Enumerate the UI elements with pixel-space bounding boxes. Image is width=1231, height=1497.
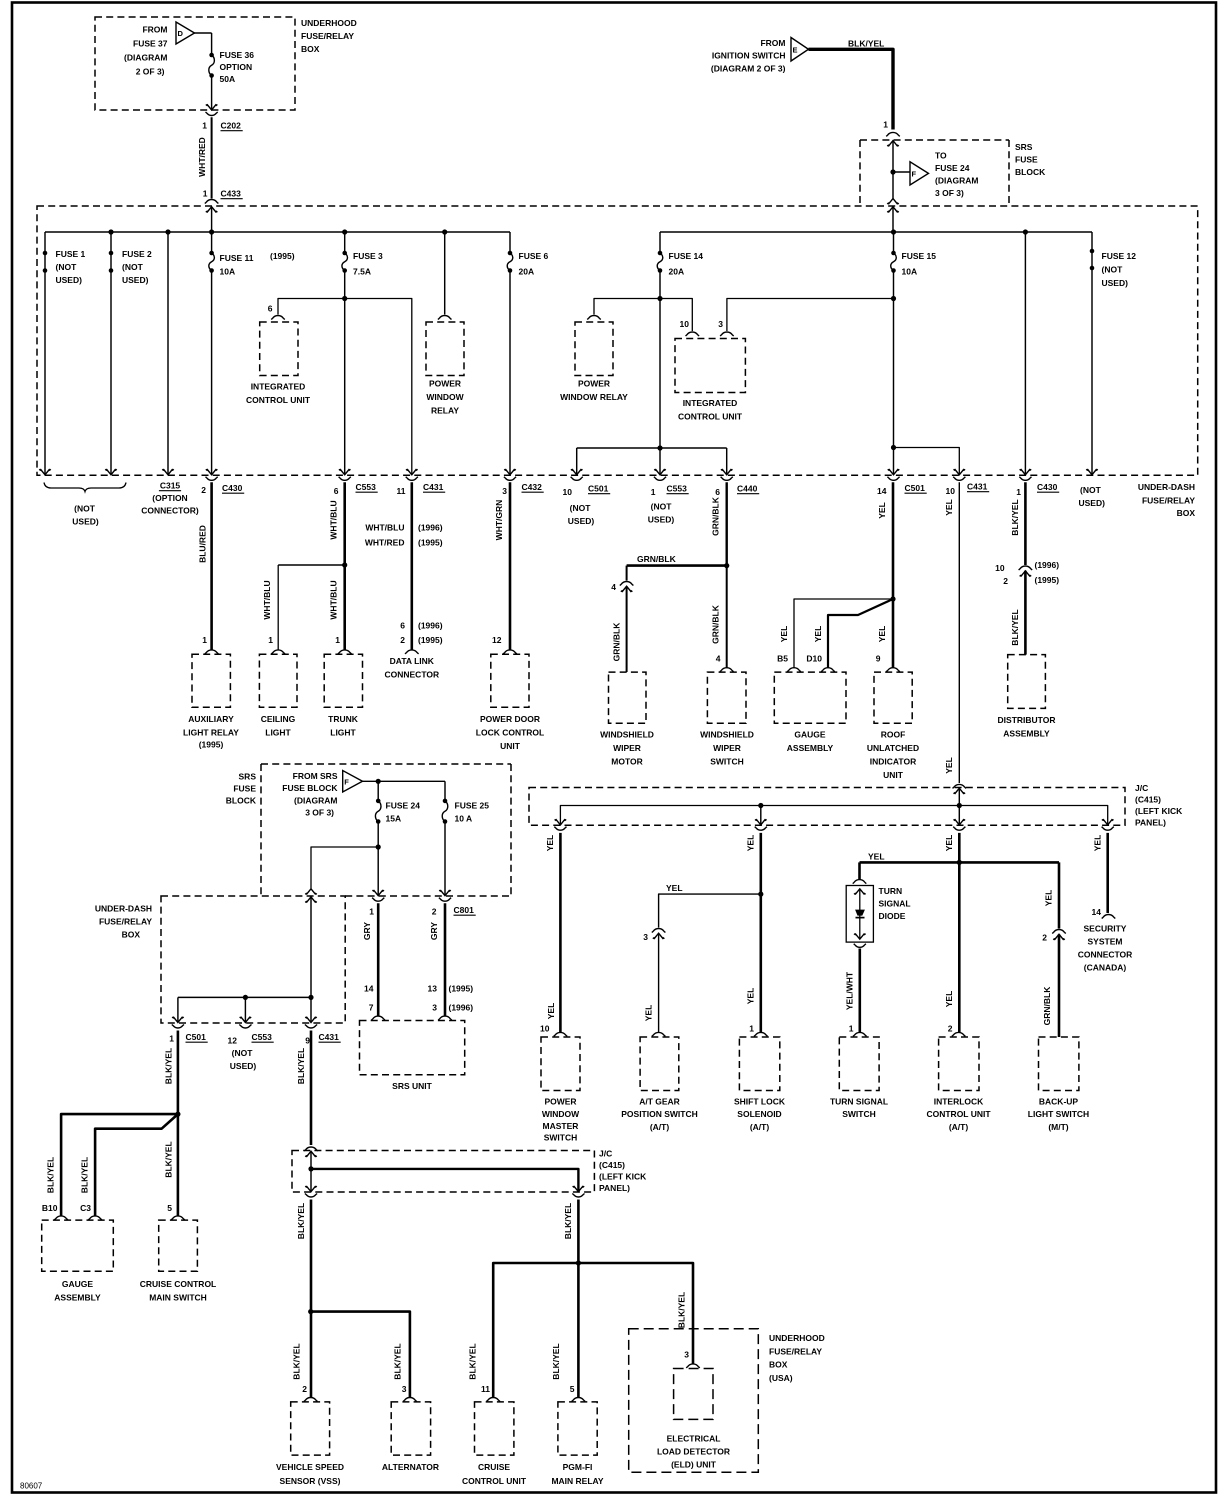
wire YEL C431-10 down to J/C bbox=[958, 482, 960, 783]
svg-text:YEL: YEL bbox=[868, 852, 885, 862]
SRS fuse block box (top, dashed) bbox=[859, 140, 861, 206]
connector C501 exit arc bbox=[887, 477, 899, 481]
svg-text:(1995): (1995) bbox=[449, 984, 474, 994]
junction dot fuse15 to C431 link bbox=[891, 445, 896, 450]
shift lock pin cap bbox=[754, 1032, 768, 1036]
connector C553 exit arc bbox=[339, 477, 351, 480]
svg-text:WIPER: WIPER bbox=[713, 743, 741, 753]
branch BLK/YEL to gauge B10 bbox=[61, 1114, 178, 1216]
branch wire to data link connector C431-11 bbox=[345, 299, 412, 475]
junction dot SRS branch bbox=[376, 844, 381, 849]
svg-text:3 OF 3): 3 OF 3) bbox=[935, 188, 964, 198]
connector exit arc J/C2 left bbox=[305, 1194, 317, 1198]
pin 6 cap (integrated control unit) bbox=[271, 315, 285, 319]
bus A in under-dash box bbox=[45, 231, 510, 233]
svg-text:20A: 20A bbox=[519, 267, 535, 277]
svg-text:SYSTEM: SYSTEM bbox=[1088, 937, 1123, 947]
svg-text:(NOT: (NOT bbox=[122, 262, 144, 272]
svg-text:1: 1 bbox=[749, 1024, 754, 1034]
svg-text:B10: B10 bbox=[42, 1203, 58, 1213]
arrow exit C501-10 bbox=[571, 469, 583, 475]
svg-text:GAUGE: GAUGE bbox=[794, 730, 826, 740]
svg-text:(DIAGRAM 2 OF 3): (DIAGRAM 2 OF 3) bbox=[711, 64, 786, 74]
branch YEL to A/T gear position switch bbox=[659, 894, 761, 927]
svg-text:FUSE 6: FUSE 6 bbox=[519, 251, 549, 261]
svg-text:BLOCK: BLOCK bbox=[1015, 167, 1046, 177]
connector C440 exit arc bbox=[721, 477, 733, 481]
electrical load detector box bbox=[674, 1369, 713, 1420]
drop to C553-12 (not used) bbox=[244, 997, 246, 1022]
svg-text:FUSE 24: FUSE 24 bbox=[935, 163, 970, 173]
svg-text:BACK-UP: BACK-UP bbox=[1039, 1097, 1079, 1107]
svg-text:1: 1 bbox=[849, 1024, 854, 1034]
svg-text:(NOT: (NOT bbox=[56, 262, 78, 272]
svg-text:E: E bbox=[793, 45, 798, 54]
diode symbol bbox=[855, 910, 865, 916]
junction dot C553-12 bbox=[243, 995, 248, 1000]
svg-text:DISTRIBUTOR: DISTRIBUTOR bbox=[998, 715, 1056, 725]
svg-text:(NOT: (NOT bbox=[1080, 485, 1102, 495]
svg-text:LIGHT: LIGHT bbox=[330, 728, 356, 738]
wire J/C1 shift drop inside bbox=[760, 806, 762, 825]
connector exit arcs J/C 1 bbox=[554, 827, 566, 831]
branch GRN/BLK to wiper motor bbox=[627, 564, 727, 567]
distributor assembly box bbox=[1008, 655, 1046, 709]
svg-text:10: 10 bbox=[540, 1024, 550, 1034]
junction dot to F connector bbox=[890, 169, 895, 174]
bus B in under-dash box bbox=[660, 231, 1092, 233]
svg-text:11: 11 bbox=[481, 1384, 490, 1394]
svg-text:TURN: TURN bbox=[879, 886, 903, 896]
power window relay 1 pin cap bbox=[438, 315, 452, 319]
svg-text:10: 10 bbox=[946, 486, 956, 496]
svg-text:10 A: 10 A bbox=[455, 814, 473, 824]
svg-text:(OPTION: (OPTION bbox=[152, 493, 187, 503]
svg-text:FUSE/RELAY: FUSE/RELAY bbox=[769, 1347, 822, 1357]
junction dot fuse3 branch bbox=[342, 296, 347, 301]
svg-text:(1995): (1995) bbox=[418, 538, 443, 548]
svg-text:BLU/RED: BLU/RED bbox=[197, 525, 207, 563]
svg-text:(1996): (1996) bbox=[449, 1003, 474, 1013]
svg-text:J/C: J/C bbox=[599, 1149, 612, 1159]
arrow exits J/C 1 bbox=[555, 819, 567, 825]
svg-text:UNDER-DASH: UNDER-DASH bbox=[1138, 482, 1195, 492]
svg-text:2: 2 bbox=[302, 1384, 307, 1394]
svg-text:14: 14 bbox=[1092, 907, 1102, 917]
svg-text:GRN/BLK: GRN/BLK bbox=[1042, 986, 1052, 1026]
svg-text:4: 4 bbox=[716, 654, 721, 664]
svg-text:USED): USED) bbox=[122, 275, 149, 285]
arrow pair through SRS bottom into under-dash box 2 bbox=[305, 889, 317, 895]
arrow out of underhood box bbox=[206, 104, 218, 110]
back-up light switch box bbox=[1039, 1037, 1079, 1091]
svg-text:TURN SIGNAL: TURN SIGNAL bbox=[830, 1097, 888, 1107]
arrow exit J/C2 right bbox=[573, 1186, 585, 1192]
wire inside J/C 2 bbox=[310, 1151, 312, 1169]
svg-text:OPTION: OPTION bbox=[220, 62, 253, 72]
svg-text:YEL: YEL bbox=[746, 835, 756, 852]
connector 3 cap bbox=[652, 928, 666, 932]
connector C553 exit arc (not used) bbox=[654, 477, 666, 481]
svg-text:(1995): (1995) bbox=[270, 251, 295, 261]
svg-text:INTEGRATED: INTEGRATED bbox=[251, 382, 306, 392]
fuse 11 10A bbox=[209, 251, 214, 256]
underhood fuse/relay box (top left, dashed) bbox=[95, 17, 295, 110]
svg-text:2 OF 3): 2 OF 3) bbox=[136, 67, 165, 77]
svg-text:BLK/YEL: BLK/YEL bbox=[1010, 609, 1020, 645]
junction dots J/C 1 bbox=[758, 803, 763, 808]
junction dot fuse15/ICU pin3 bbox=[891, 296, 896, 301]
svg-text:GRN/BLK: GRN/BLK bbox=[711, 496, 721, 536]
wiper switch pin cap bbox=[720, 668, 734, 672]
svg-text:GRN/BLK: GRN/BLK bbox=[611, 622, 621, 662]
wire to triangle F bbox=[893, 171, 910, 173]
svg-text:1: 1 bbox=[651, 487, 656, 497]
connector C430 exit arc bbox=[206, 477, 218, 481]
arrow exit C553-12 bbox=[240, 1017, 252, 1023]
svg-text:SECURITY: SECURITY bbox=[1084, 924, 1127, 934]
svg-text:(NOT: (NOT bbox=[74, 504, 96, 514]
junction dot gauge branch bbox=[175, 1112, 180, 1117]
wire to power window relay 1 bbox=[444, 232, 446, 315]
junction dot alternator branch bbox=[308, 1309, 313, 1314]
ceiling light box bbox=[259, 654, 297, 707]
svg-text:PANEL): PANEL) bbox=[599, 1183, 630, 1193]
svg-text:SOLENOID: SOLENOID bbox=[737, 1109, 781, 1119]
svg-text:3 OF 3): 3 OF 3) bbox=[305, 808, 334, 818]
svg-text:POWER: POWER bbox=[578, 379, 610, 389]
srs unit pin 13/3 cap bbox=[438, 1016, 452, 1020]
svg-text:FUSE 37: FUSE 37 bbox=[133, 39, 168, 49]
svg-text:WIPER: WIPER bbox=[613, 743, 641, 753]
alternator pin cap bbox=[403, 1397, 417, 1401]
fuse 6 20A bbox=[508, 251, 513, 256]
drop to C440-6 bbox=[726, 448, 728, 475]
svg-text:2: 2 bbox=[1042, 933, 1047, 943]
svg-text:DATA LINK: DATA LINK bbox=[390, 656, 435, 666]
svg-text:(C415): (C415) bbox=[1135, 795, 1161, 805]
svg-text:(1995): (1995) bbox=[418, 635, 443, 645]
svg-text:BLK/YEL: BLK/YEL bbox=[551, 1343, 561, 1379]
svg-text:YEL: YEL bbox=[746, 988, 756, 1005]
wire C433 entry to bus bbox=[211, 207, 213, 232]
svg-text:BLK/YEL: BLK/YEL bbox=[163, 1048, 173, 1084]
svg-text:YEL: YEL bbox=[643, 1005, 653, 1022]
arrow into under-dash box at C433 bbox=[206, 207, 218, 213]
svg-text:F: F bbox=[344, 777, 349, 786]
svg-text:YEL: YEL bbox=[779, 626, 789, 643]
connector 2 cap bbox=[1052, 929, 1066, 933]
diode internal up arrow bbox=[854, 889, 866, 895]
fuse 24 wire upper bbox=[377, 781, 379, 801]
cruise control main switch box bbox=[159, 1220, 198, 1271]
svg-text:ASSEMBLY: ASSEMBLY bbox=[787, 743, 834, 753]
arrow exit C501-14 bbox=[888, 469, 900, 475]
svg-text:(ELD) UNIT: (ELD) UNIT bbox=[671, 1460, 717, 1470]
svg-text:FUSE 24: FUSE 24 bbox=[386, 801, 421, 811]
svg-text:ASSEMBLY: ASSEMBLY bbox=[54, 1293, 101, 1303]
branch BLK/YEL to cruise control unit bbox=[493, 1263, 578, 1398]
svg-text:WHT/RED: WHT/RED bbox=[197, 137, 207, 177]
svg-text:SWITCH: SWITCH bbox=[842, 1109, 876, 1119]
connector C433 cap bbox=[205, 199, 219, 203]
wire BLK/YEL to VSS bbox=[310, 1200, 313, 1398]
wire BLK/YEL to distributor lower bbox=[1024, 571, 1027, 655]
svg-text:UNDER-DASH: UNDER-DASH bbox=[95, 904, 152, 914]
pgm-fi main relay box bbox=[558, 1402, 597, 1455]
svg-text:IGNITION SWITCH: IGNITION SWITCH bbox=[712, 51, 786, 61]
svg-text:10A: 10A bbox=[220, 267, 236, 277]
turn signal switch box bbox=[839, 1037, 879, 1091]
fuse 1 (not used) wire bbox=[44, 232, 46, 475]
svg-text:BOX: BOX bbox=[122, 930, 141, 940]
svg-text:CONTROL UNIT: CONTROL UNIT bbox=[678, 412, 743, 422]
power window relay 2 wire bbox=[594, 299, 660, 315]
svg-text:YEL: YEL bbox=[666, 883, 683, 893]
connector C430 exit arc bbox=[1019, 477, 1031, 481]
svg-text:CONNECTOR: CONNECTOR bbox=[384, 670, 439, 680]
svg-text:1: 1 bbox=[169, 1034, 174, 1044]
svg-text:YEL: YEL bbox=[1093, 835, 1103, 852]
svg-text:2: 2 bbox=[432, 907, 437, 917]
svg-text:BLK/YEL: BLK/YEL bbox=[45, 1157, 55, 1193]
fuse 25 10A bbox=[443, 799, 448, 804]
svg-text:J/C: J/C bbox=[1135, 783, 1148, 793]
svg-text:SIGNAL: SIGNAL bbox=[879, 899, 911, 909]
svg-text:FUSE/RELAY: FUSE/RELAY bbox=[99, 917, 152, 927]
svg-text:USED): USED) bbox=[568, 516, 595, 526]
arrow exit C432-3 bbox=[504, 469, 516, 475]
svg-text:FROM SRS: FROM SRS bbox=[293, 771, 338, 781]
fuse 25 wire lower bbox=[444, 822, 446, 895]
wire ICU-2 pin 3 to fuse 15 bbox=[727, 299, 894, 332]
svg-text:BLK/YEL: BLK/YEL bbox=[79, 1157, 89, 1193]
svg-text:C202: C202 bbox=[221, 121, 242, 131]
svg-text:(DIAGRAM: (DIAGRAM bbox=[935, 176, 978, 186]
wire to A/T gear position switch bbox=[658, 933, 660, 1032]
svg-text:USED): USED) bbox=[1102, 278, 1129, 288]
connector C432 exit arc bbox=[504, 477, 516, 481]
brace under fuse1/fuse2 wires bbox=[44, 483, 126, 492]
connector C431-9 exit arc bbox=[305, 1025, 317, 1029]
arrow exit J/C2 left bbox=[305, 1186, 317, 1192]
svg-text:(1996): (1996) bbox=[418, 523, 443, 533]
security connector cap bbox=[1102, 914, 1116, 918]
connector C553-12 exit arc bbox=[239, 1025, 251, 1029]
diode internal wire bbox=[859, 889, 861, 939]
svg-text:WINDOW RELAY: WINDOW RELAY bbox=[560, 392, 628, 402]
arrow into SRS fuse block bbox=[887, 141, 899, 147]
svg-text:UNDERHOOD: UNDERHOOD bbox=[769, 1333, 825, 1343]
svg-text:WHT/BLU: WHT/BLU bbox=[329, 580, 339, 619]
power window relay 1 box bbox=[426, 322, 464, 376]
wire GRN/BLK to wiper switch bbox=[726, 566, 728, 668]
A/T gear position switch box bbox=[640, 1037, 679, 1091]
svg-text:INTERLOCK: INTERLOCK bbox=[934, 1097, 984, 1107]
svg-text:(1995): (1995) bbox=[199, 740, 224, 750]
roof unlatched indicator unit box bbox=[874, 672, 912, 723]
svg-text:YEL: YEL bbox=[944, 499, 954, 516]
interlock pin cap bbox=[952, 1032, 966, 1036]
svg-text:SHIFT LOCK: SHIFT LOCK bbox=[734, 1097, 786, 1107]
svg-text:YEL: YEL bbox=[813, 626, 823, 643]
connector C801-1 exit arc bbox=[372, 898, 384, 902]
PWMS pin cap bbox=[554, 1032, 568, 1036]
wire YEL shift lock solenoid bbox=[759, 833, 762, 1033]
svg-text:C553: C553 bbox=[252, 1032, 273, 1042]
svg-text:13: 13 bbox=[428, 984, 438, 994]
wire to C430-1 bbox=[1024, 232, 1026, 475]
connector 3 lower chevron bbox=[653, 933, 665, 939]
connector 2 lower chevron bbox=[1053, 934, 1065, 940]
wire YEL to interlock control unit bbox=[958, 833, 961, 1033]
arrow fuse12 exit bbox=[1086, 469, 1098, 475]
junction dot fuse14 to relay/ICU bbox=[657, 296, 662, 301]
arrow into J/C 2 bbox=[305, 1151, 317, 1157]
wire GRY srs unit pin 13/3 bbox=[444, 903, 447, 1016]
svg-text:GRN/BLK: GRN/BLK bbox=[637, 554, 677, 564]
fuse 12 (not used) wire bbox=[1091, 232, 1093, 475]
svg-text:11: 11 bbox=[397, 486, 406, 496]
svg-text:FUSE 2: FUSE 2 bbox=[122, 249, 152, 259]
shift lock solenoid box bbox=[739, 1037, 779, 1091]
pgm-fi pin cap bbox=[572, 1397, 586, 1401]
wire YEL to security system connector bbox=[1106, 833, 1109, 913]
gauge pin D10 cap bbox=[821, 668, 835, 672]
branch BLK/YEL to alternator bbox=[311, 1312, 410, 1398]
wire from triangle D to fuse 36 bbox=[195, 32, 212, 34]
fuse 14 wire bbox=[659, 232, 661, 253]
power window relay 2 pin cap bbox=[587, 315, 601, 319]
trunk light box bbox=[324, 654, 362, 707]
svg-text:B5: B5 bbox=[777, 654, 788, 664]
svg-text:FROM: FROM bbox=[142, 25, 167, 35]
connector cap at J/C 1 entry bbox=[953, 784, 967, 788]
svg-text:CONTROL UNIT: CONTROL UNIT bbox=[246, 395, 311, 405]
arrow fuse1 wire exit bbox=[39, 469, 51, 475]
svg-text:FUSE 25: FUSE 25 bbox=[455, 801, 490, 811]
svg-text:(NOT: (NOT bbox=[570, 503, 592, 513]
svg-text:WINDSHIELD: WINDSHIELD bbox=[600, 730, 654, 740]
svg-text:YEL: YEL bbox=[1043, 890, 1053, 907]
fuse 6 wire bbox=[509, 232, 511, 253]
svg-text:C501: C501 bbox=[588, 484, 609, 494]
svg-text:F: F bbox=[912, 170, 917, 179]
svg-text:LIGHT SWITCH: LIGHT SWITCH bbox=[1028, 1109, 1089, 1119]
svg-text:WHT/BLU: WHT/BLU bbox=[365, 523, 404, 533]
svg-text:FUSE 3: FUSE 3 bbox=[353, 251, 383, 261]
under-dash fuse/relay box 2 (dashed) bbox=[161, 896, 345, 1023]
svg-text:C433: C433 bbox=[221, 189, 242, 199]
svg-text:BLK/YEL: BLK/YEL bbox=[1010, 499, 1020, 535]
svg-text:80607: 80607 bbox=[20, 1482, 43, 1491]
svg-text:WINDOW: WINDOW bbox=[542, 1109, 580, 1119]
svg-text:5: 5 bbox=[570, 1384, 575, 1394]
svg-text:UNDERHOOD: UNDERHOOD bbox=[301, 18, 357, 28]
svg-text:10: 10 bbox=[563, 487, 573, 497]
svg-text:2: 2 bbox=[400, 635, 405, 645]
connector 4 lower chevron bbox=[621, 586, 633, 592]
svg-text:CRUISE CONTROL: CRUISE CONTROL bbox=[140, 1279, 217, 1289]
svg-text:(NOT: (NOT bbox=[651, 502, 673, 512]
turn signal switch pin cap bbox=[853, 1032, 867, 1036]
arrow fuse2 wire exit bbox=[105, 469, 117, 475]
svg-text:9: 9 bbox=[876, 654, 881, 664]
gauge assembly box (lower) bbox=[42, 1220, 114, 1271]
svg-text:YEL/WHT: YEL/WHT bbox=[845, 971, 855, 1010]
svg-text:(M/T): (M/T) bbox=[1048, 1122, 1068, 1132]
arrow exit to C430-2 bbox=[206, 469, 218, 475]
svg-text:CONNECTOR: CONNECTOR bbox=[1078, 950, 1133, 960]
power door lock pin cap bbox=[503, 650, 517, 654]
svg-text:SRS: SRS bbox=[239, 772, 257, 782]
svg-text:USED): USED) bbox=[72, 517, 99, 527]
junction dot fuse 24 feed bbox=[376, 779, 381, 784]
svg-text:50A: 50A bbox=[220, 74, 236, 84]
branch wire to integrated control unit pin 6 bbox=[278, 299, 345, 315]
svg-text:WINDOW: WINDOW bbox=[426, 392, 464, 402]
svg-text:ROOF: ROOF bbox=[881, 730, 906, 740]
svg-text:12: 12 bbox=[228, 1036, 238, 1046]
svg-text:3: 3 bbox=[402, 1384, 407, 1394]
arrow exit C801-2 bbox=[439, 890, 451, 896]
svg-text:FUSE BLOCK: FUSE BLOCK bbox=[282, 783, 338, 793]
svg-text:SWITCH: SWITCH bbox=[710, 757, 744, 767]
wire YEL to power window master switch bbox=[559, 833, 562, 1033]
svg-text:CONNECTOR): CONNECTOR) bbox=[141, 506, 199, 516]
wire BLK/YEL from C501-1 bbox=[177, 1031, 180, 1217]
integrated control unit box (left) bbox=[260, 322, 298, 376]
arrow exit C431-10 bbox=[954, 469, 966, 475]
svg-text:WHT/BLU: WHT/BLU bbox=[262, 580, 272, 619]
svg-text:(NOT: (NOT bbox=[1102, 265, 1124, 275]
svg-text:C3: C3 bbox=[80, 1203, 91, 1213]
power door lock control unit box bbox=[491, 654, 529, 707]
svg-text:10A: 10A bbox=[902, 267, 918, 277]
branch YEL to gauge B5 bbox=[794, 599, 893, 668]
fuse 36 OPTION 50A bbox=[209, 53, 214, 58]
svg-text:BOX: BOX bbox=[1177, 508, 1196, 518]
svg-text:(C415): (C415) bbox=[599, 1160, 625, 1170]
bus wire J/C 2 bbox=[311, 1169, 578, 1192]
svg-text:9: 9 bbox=[305, 1036, 310, 1046]
svg-text:FUSE 1: FUSE 1 bbox=[56, 249, 86, 259]
svg-text:USED): USED) bbox=[648, 515, 675, 525]
svg-text:BLK/YEL: BLK/YEL bbox=[392, 1343, 402, 1379]
svg-text:FUSE: FUSE bbox=[233, 784, 256, 794]
svg-text:RELAY: RELAY bbox=[431, 406, 459, 416]
arrow exit C430-1 bbox=[1020, 469, 1032, 475]
svg-text:POSITION SWITCH: POSITION SWITCH bbox=[621, 1109, 698, 1119]
wire BLK/YEL to distributor bbox=[1024, 482, 1027, 565]
svg-text:(DIAGRAM: (DIAGRAM bbox=[124, 53, 167, 63]
wire BLU/RED to auxiliary light relay bbox=[210, 482, 213, 649]
junction dot YEL gauge/roof bbox=[890, 596, 895, 601]
wire GRN/BLK to back-up light switch bbox=[1058, 934, 1061, 1037]
svg-text:C501: C501 bbox=[905, 483, 926, 493]
fuse 24 15A bbox=[376, 799, 381, 804]
svg-text:BLK/YEL: BLK/YEL bbox=[467, 1343, 477, 1379]
branch BLK/YEL to gauge C3 bbox=[95, 1114, 178, 1216]
svg-text:USED): USED) bbox=[1079, 498, 1106, 508]
svg-text:6: 6 bbox=[400, 621, 405, 631]
wire GRY srs unit pin 14/7 bbox=[377, 903, 380, 1016]
svg-text:CONTROL UNIT: CONTROL UNIT bbox=[462, 1476, 527, 1486]
junction dots on bus B bbox=[891, 229, 896, 234]
svg-text:4: 4 bbox=[611, 582, 616, 592]
svg-text:CEILING: CEILING bbox=[261, 714, 296, 724]
alternator box bbox=[391, 1402, 430, 1455]
